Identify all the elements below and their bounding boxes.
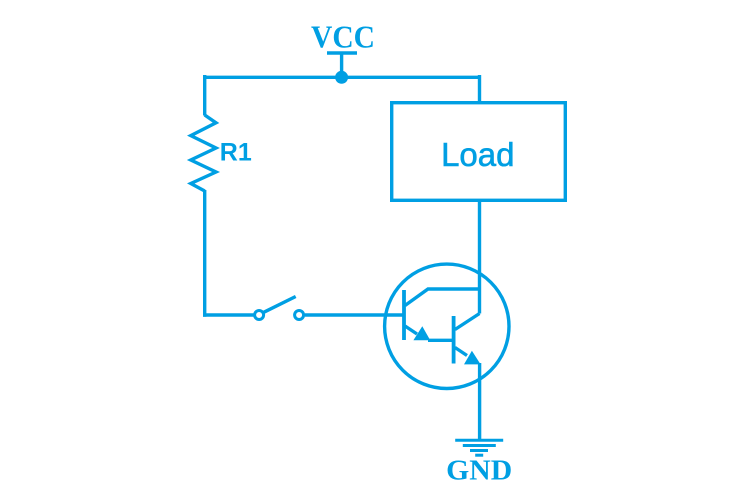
svg-text:Load: Load xyxy=(441,136,514,173)
svg-text:GND: GND xyxy=(446,455,512,487)
svg-text:VCC: VCC xyxy=(311,19,375,55)
svg-text:R1: R1 xyxy=(220,139,252,167)
